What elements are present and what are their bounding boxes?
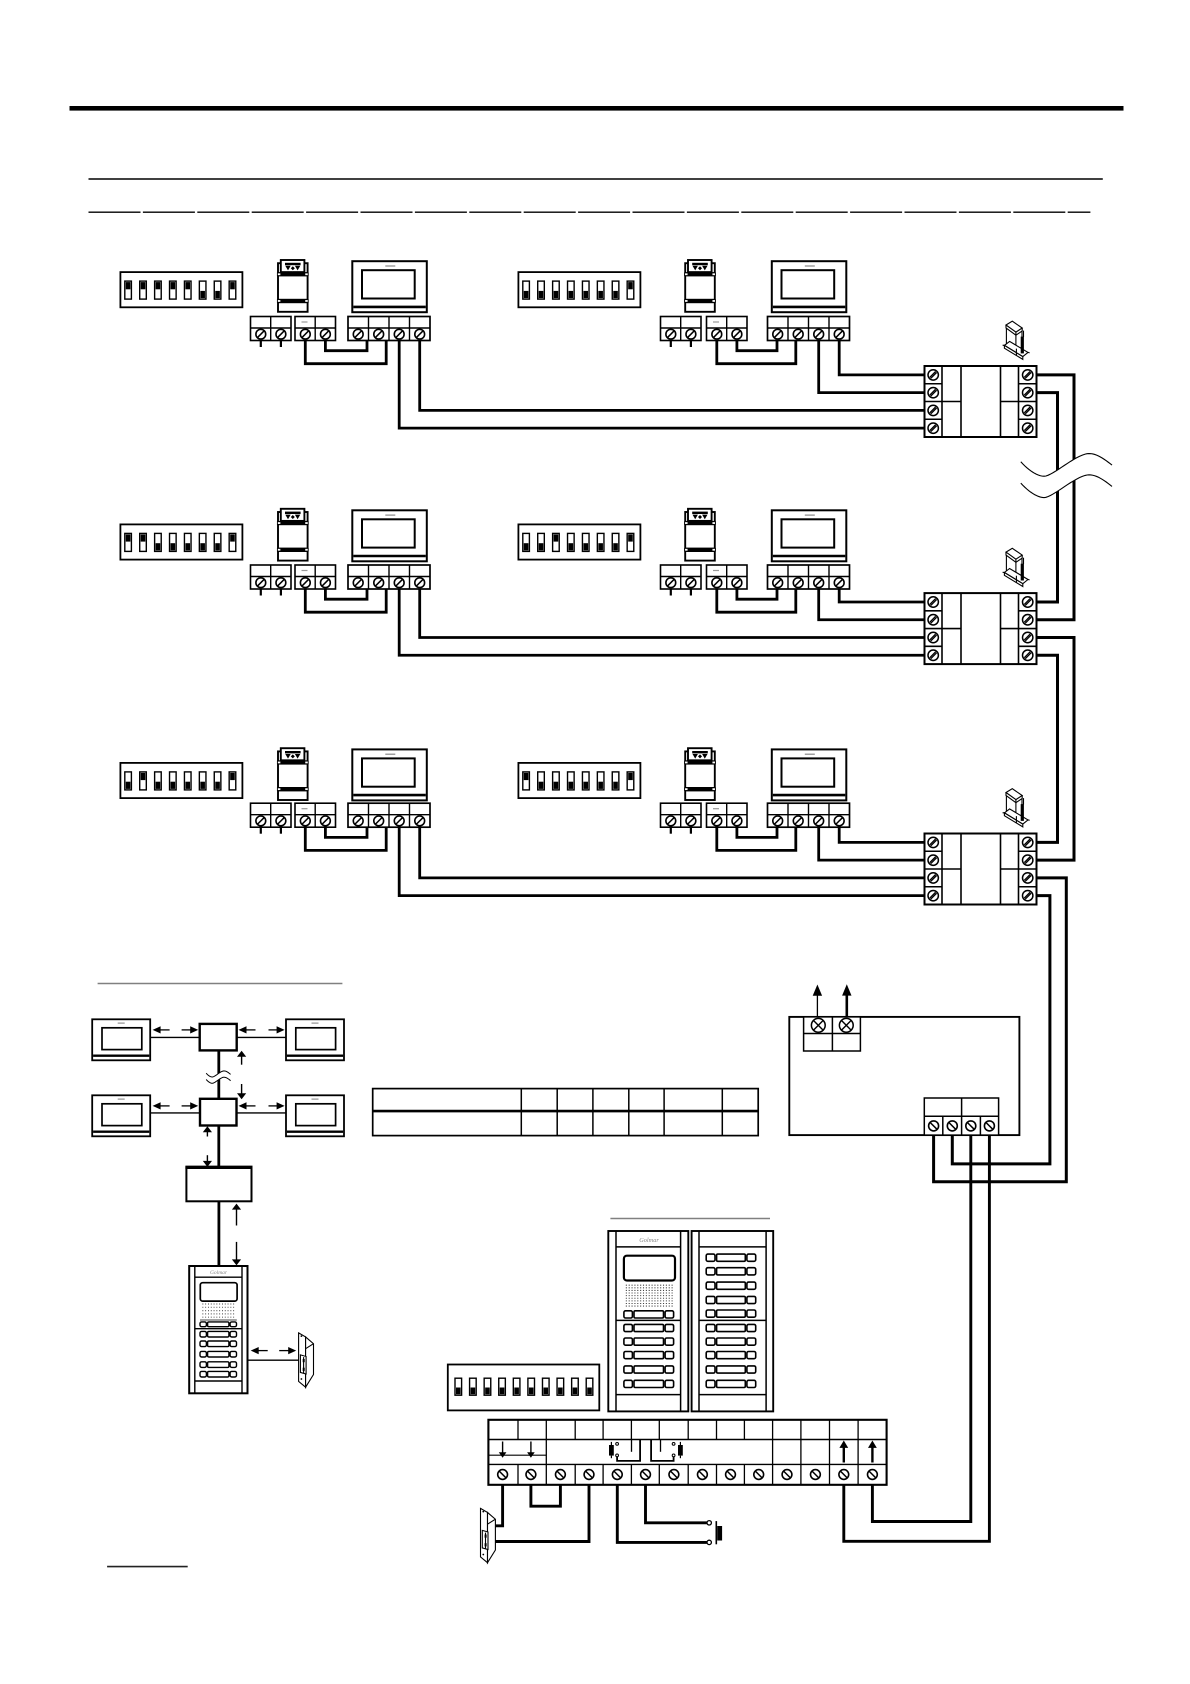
- wire stub (row 3 left a): [260, 827, 262, 834]
- wire stub (row 2 right b): [690, 589, 692, 596]
- configuration jumper plug (row 3): [1003, 789, 1030, 827]
- wire riser J3-3 down to PSU terminal 1: [934, 878, 1067, 1182]
- wire bus-b1 to monitor-2 (row 3 left): [305, 827, 386, 850]
- svg-text:Golmar: Golmar: [210, 1270, 228, 1276]
- legend door station display: [200, 1283, 237, 1301]
- power terminal block (row 1 left): [251, 317, 292, 341]
- power terminal block (row 3 left): [251, 803, 292, 827]
- street panel right button row 8: [706, 1352, 756, 1359]
- legend monitor (top-right): [286, 1019, 344, 1060]
- wire monitor3A-4 to junction (row 3): [420, 827, 925, 878]
- wire bus-b2 to monitor-1 (row 2 left): [325, 589, 367, 599]
- floor distributor D2B: [685, 509, 716, 561]
- wire bus-b1 to monitor-2 (row 2 left): [305, 589, 386, 612]
- monitor terminal block (row 2 left): [348, 565, 430, 589]
- monitor terminal block (row 3 left): [348, 803, 430, 827]
- video monitor M3B: [772, 749, 847, 800]
- video monitor M3A: [352, 749, 427, 800]
- bus terminal block (row 3 left): [295, 803, 336, 827]
- wire terminal 5 to push button: [617, 1485, 707, 1543]
- street panel right button row 6: [706, 1324, 756, 1331]
- legend distributor box 1: [200, 1024, 237, 1051]
- bus terminal block (row 2 right): [707, 565, 748, 589]
- DIP switch block S1 (right dwelling): [518, 272, 640, 307]
- monitor terminal block (row 1 right): [768, 317, 850, 341]
- wire PSU terminal 3 to street panel terminal 14: [872, 1135, 970, 1521]
- legend monitor (bottom-right): [286, 1095, 344, 1136]
- legend arrow up (beside break): [237, 1051, 246, 1065]
- bottom-left note rule: [107, 1566, 188, 1568]
- wire bus-b2 to monitor-1 (row 2 right): [737, 589, 777, 599]
- wire bus-b1 to monitor-2 (row 2 right): [717, 589, 796, 612]
- floor distributor D2A: [277, 509, 308, 561]
- wire monitor1B-3 to junction (row 1): [819, 341, 925, 393]
- bus terminal block (row 1 right): [707, 317, 748, 341]
- strip arrow up (terminal 14): [868, 1441, 877, 1463]
- legend wire door station to strike: [248, 1359, 299, 1361]
- floor distributor D1A: [277, 260, 308, 312]
- wire terminal 6 to push button: [646, 1485, 707, 1523]
- legend arrow left (door strike): [251, 1347, 268, 1354]
- legend arrow up (box2 underside): [203, 1126, 212, 1136]
- PSU mains arrow (L): [813, 985, 822, 1017]
- monitor terminal block (row 2 right): [768, 565, 850, 589]
- legend arrow right (inner-left): [182, 1102, 199, 1109]
- top thick rule: [70, 106, 1124, 111]
- configuration jumper plug (row 2): [1003, 548, 1030, 586]
- wire stub (row 1 left b): [280, 341, 282, 348]
- DIP switch block S3 (right dwelling): [518, 763, 640, 798]
- wire stub (row 3 left b): [280, 827, 282, 834]
- wire monitor1A-3 to junction (row 1): [399, 341, 924, 429]
- DIP switch block S2 (right dwelling): [518, 524, 640, 559]
- wire monitor3B-3 to junction (row 3): [819, 827, 925, 860]
- riser junction box J2: [925, 593, 1037, 664]
- legend door station speaker grille: [202, 1304, 235, 1317]
- configuration jumper plug (row 1): [1003, 321, 1030, 359]
- street panel right button row 1: [706, 1254, 756, 1261]
- door push button: [707, 1521, 722, 1545]
- wire bus-b2 to monitor-1 (row 3 left): [325, 827, 367, 837]
- legend bus wire box2-psu: [217, 1126, 220, 1168]
- power terminal block (row 2 right): [661, 565, 702, 589]
- DIP switch block S1 (left dwelling): [120, 272, 242, 307]
- street panel call button: [624, 1311, 674, 1318]
- legend arrow down (panel topside): [232, 1242, 241, 1266]
- video monitor M1A: [352, 261, 427, 312]
- street panel right button row 7: [706, 1338, 756, 1345]
- wire stub (row 3 right a): [670, 827, 672, 834]
- power terminal block (row 2 left): [251, 565, 292, 589]
- wire monitor1B-4 to junction (row 1): [839, 341, 924, 375]
- wire riser J1-1 down to J2-2: [1037, 375, 1075, 620]
- power supply unit box: [789, 1017, 1019, 1135]
- DIP switch block S3 (left dwelling): [120, 763, 242, 798]
- street panel left button row 1: [624, 1324, 674, 1331]
- wire monitor2B-4 to junction (row 2): [839, 589, 924, 602]
- wire monitor2A-4 to junction (row 2): [420, 589, 925, 638]
- legend bus wire psu-door panel: [217, 1201, 220, 1266]
- street door panel (right module): [692, 1231, 774, 1411]
- legend arrow right (outer-right): [269, 1102, 285, 1109]
- legend arrow right (door strike): [279, 1347, 296, 1354]
- wire monitor2A-3 to junction (row 2): [399, 589, 924, 655]
- street panel left button row 4: [624, 1366, 674, 1373]
- street panel terminal strip: [488, 1420, 886, 1485]
- top thin rule 1: [89, 178, 1103, 180]
- legend door station button row 1: [200, 1331, 237, 1337]
- legend cable break: [206, 1071, 230, 1083]
- lock release contact symbol (right): [651, 1440, 683, 1461]
- street panel right button row 5: [706, 1310, 756, 1317]
- wire stub (row 2 right a): [670, 589, 672, 596]
- svg-text:Golmar: Golmar: [639, 1237, 659, 1244]
- legend door station outline: [189, 1266, 247, 1393]
- legend arrow left (outer-left): [153, 1026, 170, 1033]
- legend power supply box: [185, 1167, 252, 1201]
- legend arrow down (psu topside): [203, 1155, 212, 1167]
- electric door strike (street door): [481, 1508, 496, 1562]
- legend arrow left (inner-right): [239, 1102, 256, 1109]
- legend arrow left (inner-right): [239, 1026, 256, 1033]
- street door panel (left module): [608, 1231, 688, 1411]
- floor distributor D3B: [685, 748, 716, 800]
- legend arrow right (outer-right): [269, 1026, 285, 1033]
- wire riser J2-4 down to J3-1: [1037, 655, 1058, 842]
- bus terminal block (row 2 left): [295, 565, 336, 589]
- DIP switch block S2 (left dwelling): [120, 524, 242, 559]
- wire jumper terminals 2-3: [531, 1485, 561, 1506]
- wire monitor1A-4 to junction (row 1): [420, 341, 925, 411]
- legend arrow up (psu underside): [232, 1204, 241, 1226]
- street panel right button row 2: [706, 1268, 756, 1275]
- legend arrow down (beside break): [237, 1084, 246, 1099]
- strip arrow down (terminal 2): [527, 1442, 535, 1458]
- wire riser J2-3 down to J3-2: [1037, 638, 1075, 861]
- floor distributor D3A: [277, 748, 308, 800]
- floor distributor D1B: [685, 260, 716, 312]
- wire terminal 1 to door strike: [495, 1485, 503, 1526]
- wire monitor3B-4 to junction (row 3): [839, 827, 924, 842]
- wire legend distributor to monitor (right): [237, 1036, 286, 1038]
- monitor terminal block (row 1 left): [348, 317, 430, 341]
- wire bus-b2 to monitor-1 (row 1 right): [737, 341, 777, 351]
- riser junction box J3: [925, 834, 1037, 905]
- wire legend monitor to distributor (left): [150, 1112, 200, 1114]
- legend door station button row 2: [200, 1341, 237, 1347]
- PSU mains arrow (N): [842, 984, 851, 1017]
- legend monitor (top-left): [92, 1019, 150, 1060]
- bus terminal block (row 1 left): [295, 317, 336, 341]
- video monitor M1B: [772, 261, 847, 312]
- street panel left button row 3: [624, 1352, 674, 1359]
- wire stub (row 2 left a): [260, 589, 262, 596]
- wire legend distributor to monitor (right): [237, 1112, 286, 1114]
- wire bus-b1 to monitor-2 (row 1 right): [717, 341, 796, 364]
- top thin rule 2: [89, 211, 1091, 213]
- video monitor M2A: [352, 510, 427, 561]
- legend door station grille underline: [200, 1319, 237, 1321]
- legend separator line (gray): [98, 983, 343, 985]
- monitor terminal block (row 3 right): [768, 803, 850, 827]
- legend bus wire box1-box2: [217, 1050, 220, 1098]
- strip arrow up (terminal 13): [839, 1441, 848, 1463]
- strip arrow down (terminal 1): [499, 1442, 507, 1458]
- wire stub (row 3 right b): [690, 827, 692, 834]
- street panel display window: [624, 1256, 675, 1281]
- wire stub (row 1 right a): [670, 341, 672, 348]
- wire bus-b2 to monitor-1 (row 3 right): [737, 827, 777, 837]
- wire monitor2B-3 to junction (row 2): [819, 589, 925, 620]
- cable break symbol (riser): [1021, 454, 1112, 498]
- legend door station call button: [200, 1322, 237, 1327]
- street panel right button row 10: [706, 1380, 756, 1387]
- street panel right button row 4: [706, 1296, 756, 1303]
- street panel DIP switch block: [448, 1365, 600, 1411]
- street panel terminal screws: [498, 1470, 878, 1480]
- wire stub (row 1 right b): [690, 341, 692, 348]
- wire PSU terminal 4 to street panel terminal 13: [844, 1135, 990, 1541]
- power terminal block (row 1 right): [661, 317, 702, 341]
- power terminal block (row 3 right): [661, 803, 702, 827]
- street panel speaker grille: [626, 1285, 673, 1307]
- wire terminal 4 to door strike: [495, 1485, 589, 1542]
- legend arrow right (inner-left): [182, 1026, 199, 1033]
- legend door station button row 3: [200, 1351, 237, 1357]
- street panel right button row 9: [706, 1366, 756, 1373]
- wire monitor3A-3 to junction (row 3): [399, 827, 924, 895]
- street panel left button row 5: [624, 1380, 674, 1387]
- street panel separator line (gray): [610, 1218, 770, 1220]
- wire riser J3-4 down to PSU terminal 2: [952, 896, 1050, 1164]
- legend arrow left (outer-left): [153, 1102, 170, 1109]
- bus terminal block (row 3 right): [707, 803, 748, 827]
- legend monitor (bottom-left): [92, 1095, 150, 1136]
- wire riser J1-2 down to J2-1: [1037, 393, 1058, 602]
- PSU mains terminal block: [804, 1017, 861, 1051]
- legend distributor box 2: [200, 1099, 237, 1126]
- street panel left button row 2: [624, 1338, 674, 1345]
- wire bus-b1 to monitor-2 (row 1 left): [305, 341, 386, 364]
- legend electric door strike: [299, 1333, 314, 1387]
- legend door station button row 4: [200, 1362, 237, 1368]
- street panel right button row 3: [706, 1282, 756, 1289]
- PSU output terminal block: [924, 1098, 998, 1135]
- wire stub (row 1 left a): [260, 341, 262, 348]
- lock release contact symbol (left): [609, 1440, 640, 1461]
- cable table: [373, 1089, 759, 1136]
- video monitor M2B: [772, 510, 847, 561]
- wire stub (row 2 left b): [280, 589, 282, 596]
- riser junction box J1: [925, 366, 1037, 437]
- wire bus-b2 to monitor-1 (row 1 left): [325, 341, 367, 351]
- wire bus-b1 to monitor-2 (row 3 right): [717, 827, 796, 850]
- legend door station button row 5: [200, 1371, 237, 1377]
- wire legend monitor to distributor (left): [150, 1036, 200, 1038]
